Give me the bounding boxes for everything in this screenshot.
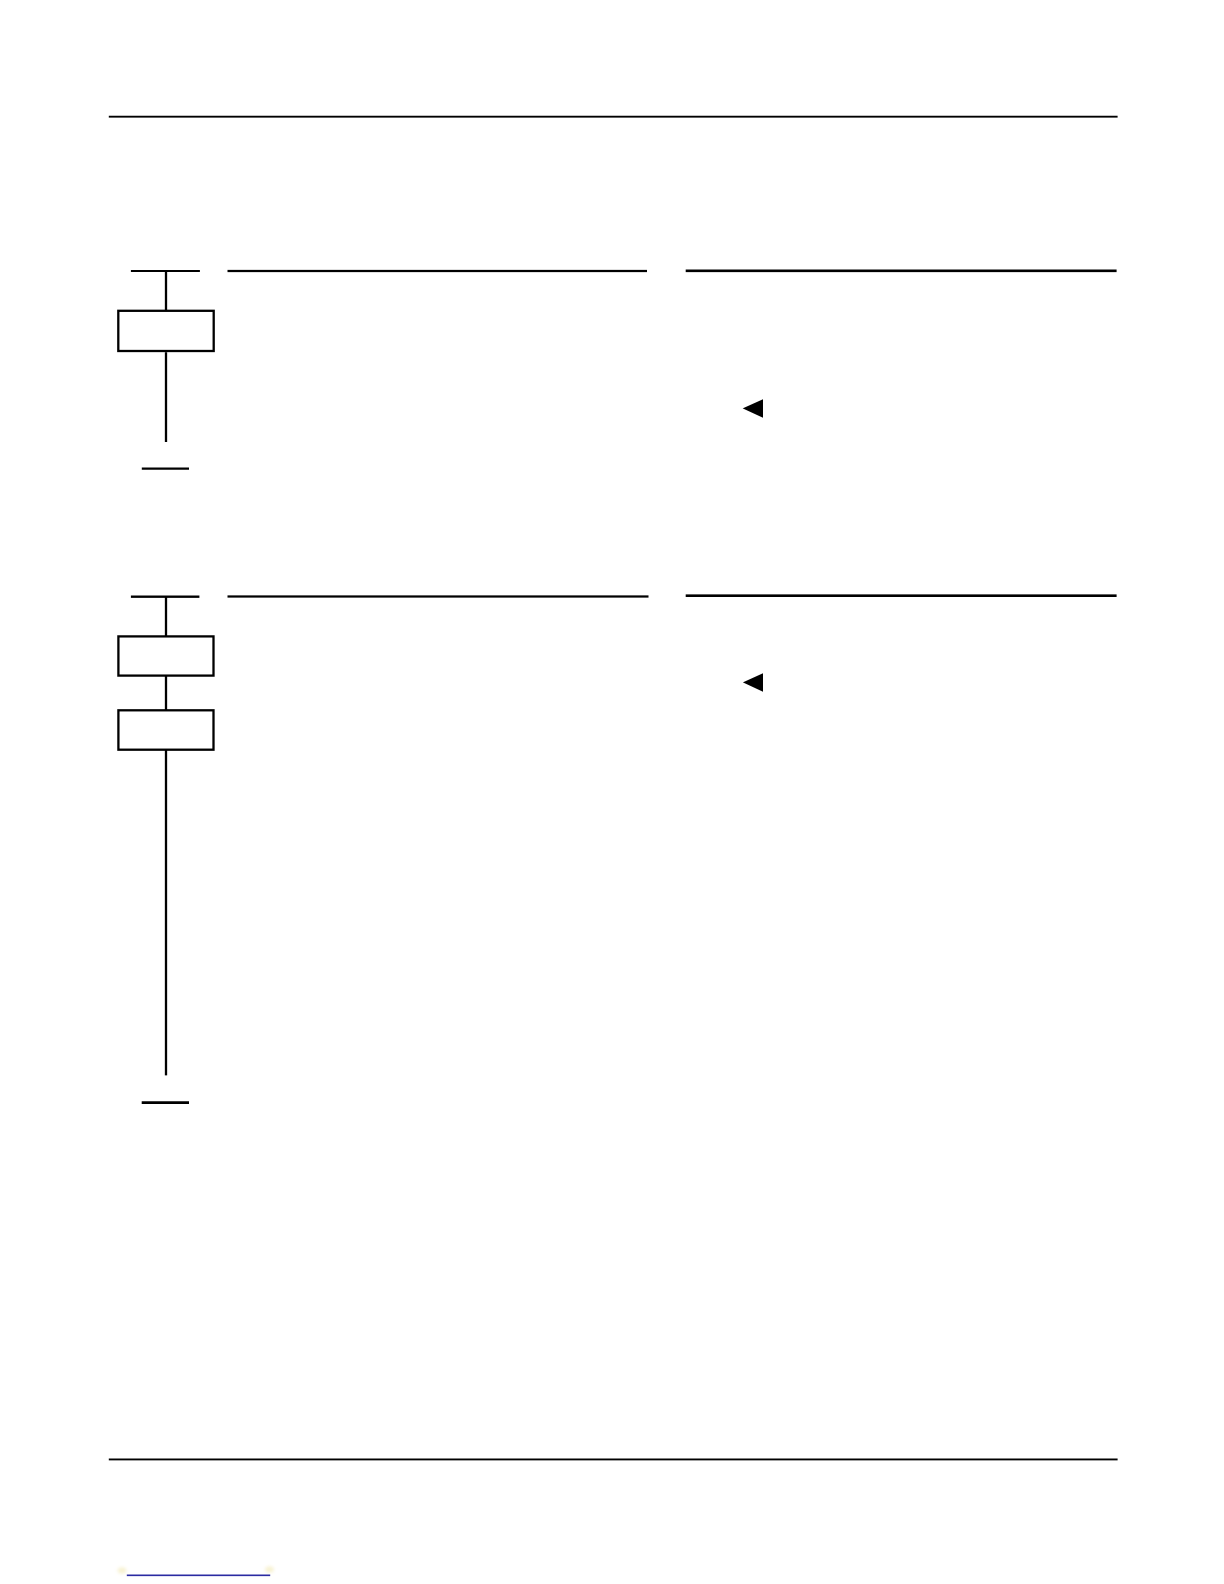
ground tick: [142, 467, 189, 469]
ground tick 2: [142, 1101, 189, 1104]
wire: section-2 left rail segment: [131, 596, 200, 598]
wire: vertical from rail into component box: [165, 271, 167, 311]
rule: section-1 right column header line: [686, 269, 1117, 272]
component box lower (unlabeled symbol): [118, 710, 213, 749]
wire: long vertical from lower component box down: [165, 750, 167, 1076]
rule: section-2 right column header line: [686, 594, 1117, 597]
component box upper (unlabeled symbol): [118, 636, 213, 675]
rule: section-1 left column header line: [228, 270, 648, 272]
marker: solid left triangle 1: [743, 399, 763, 418]
marker: solid left triangle 2: [743, 673, 763, 692]
component box (unlabeled symbol): [118, 311, 213, 351]
wire: vertical from component box down: [165, 352, 167, 442]
wire: section-1 left rail segment: [131, 270, 200, 272]
wire: vertical between the two component boxes: [165, 676, 167, 711]
hyperlink underline: [127, 1574, 270, 1576]
rule: section-2 left column header line: [228, 595, 649, 597]
faint glyph remnant left of hyperlink: [118, 1567, 127, 1573]
faint glyph remnant right of hyperlink: [265, 1566, 274, 1572]
wire: vertical from rail into upper component box: [165, 597, 167, 637]
bottom horizontal rule: [109, 1458, 1118, 1460]
top horizontal rule: [109, 116, 1118, 118]
